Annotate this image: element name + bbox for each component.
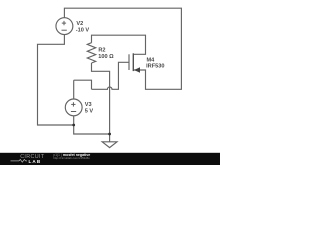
svg-text:V2: V2 [76, 21, 83, 27]
svg-text:-10 V: -10 V [76, 27, 90, 33]
svg-text:V3: V3 [85, 102, 92, 108]
svg-text:R2: R2 [98, 48, 105, 54]
svg-text:5 V: 5 V [85, 108, 94, 114]
svg-text:M4: M4 [147, 57, 156, 63]
svg-text:http://circuitlab.com/c353d6v: http://circuitlab.com/c353d6v [53, 156, 90, 160]
svg-text:IRF530: IRF530 [146, 64, 164, 70]
svg-text:100 Ω: 100 Ω [98, 54, 114, 60]
svg-text:LAB: LAB [29, 159, 42, 164]
